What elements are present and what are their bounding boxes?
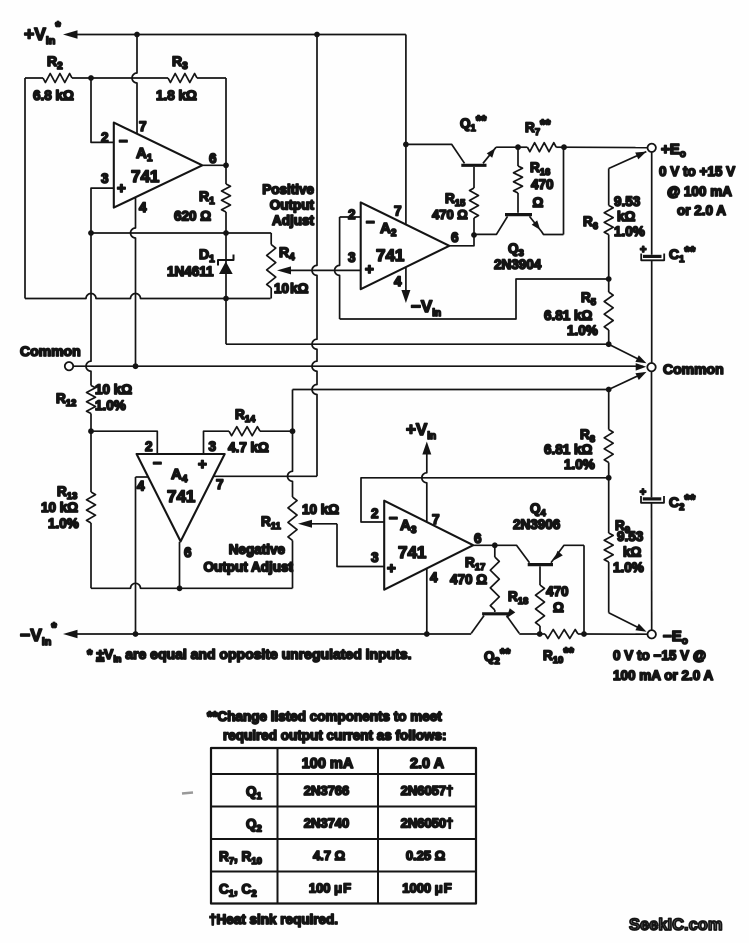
resistor R13 — [87, 431, 96, 588]
terminal +Vin input arrow — [63, 30, 406, 39]
svg-text:SeekIC.com: SeekIC.com — [629, 916, 723, 934]
resistor R14 — [229, 427, 293, 436]
wire A3 output — [473, 544, 495, 546]
label R15 — [445, 191, 466, 209]
svg-text:kΩ: kΩ — [617, 209, 636, 224]
resistor R18 — [536, 566, 545, 634]
pin 7 label A1 — [139, 119, 147, 134]
node A1 output junction — [223, 162, 229, 168]
svg-text:2: 2 — [348, 207, 356, 222]
wiper arrow R4 — [277, 266, 361, 274]
wire R3 right to A1 output — [225, 78, 227, 165]
table row Q2 — [246, 816, 453, 835]
svg-text:Q2**: Q2** — [484, 646, 511, 667]
label -Vin A2 — [411, 297, 441, 319]
svg-text:4.7 Ω: 4.7 Ω — [313, 848, 345, 863]
terminal Common left — [65, 362, 73, 370]
svg-text:741: 741 — [167, 487, 195, 506]
svg-text:R16: R16 — [530, 160, 550, 178]
label D1 — [199, 246, 215, 265]
svg-text:+: + — [365, 261, 374, 278]
svg-text:required output current as fol: required output current as follows: — [223, 728, 447, 743]
label C2** — [669, 491, 696, 513]
value 2N3904 — [494, 257, 542, 272]
wire R11 wiper to A3 pin3 — [337, 524, 384, 567]
pin 7 label A3 — [432, 512, 440, 527]
wire R11 top drop — [288, 431, 293, 497]
svg-text:10 kΩ: 10 kΩ — [41, 500, 78, 515]
node Common/A1 pin4 — [133, 363, 139, 369]
svg-text:Ω: Ω — [553, 600, 564, 615]
label output range positive — [659, 164, 735, 218]
wire A4 output — [179, 542, 181, 589]
op-amp A2 — [361, 202, 450, 289]
node A3 output junction — [492, 542, 498, 548]
wire A4 pin7 supply — [214, 35, 318, 477]
value 470 Ohm R16 — [531, 177, 554, 210]
op-amp A3 — [384, 501, 473, 590]
svg-text:1.0%: 1.0% — [613, 560, 644, 575]
resistor R16 — [514, 147, 523, 213]
svg-text:6.81 kΩ: 6.81 kΩ — [544, 308, 593, 323]
resistor R12 — [87, 386, 96, 432]
pin 6 label A1 — [209, 151, 217, 166]
svg-text:+: + — [387, 560, 396, 577]
svg-text:R6: R6 — [583, 214, 598, 232]
value R6 9.53k — [614, 194, 645, 239]
label C1** — [669, 243, 696, 265]
label Q4 — [530, 501, 547, 519]
table header 100 mA — [302, 756, 354, 772]
pin 4 label A4 — [137, 479, 145, 494]
value R9 9.53k — [613, 529, 644, 575]
value R12 10k — [95, 382, 132, 413]
resistor R1 — [222, 165, 231, 233]
value 1N4611 — [167, 264, 214, 279]
label Q1** — [460, 113, 487, 134]
svg-text:R3: R3 — [172, 53, 188, 72]
svg-text:2.0 A: 2.0 A — [410, 756, 445, 772]
wire A1 pin2 input — [91, 78, 114, 142]
label -Eo — [663, 628, 688, 647]
svg-text:†Heat sink required.: †Heat sink required. — [209, 912, 338, 927]
svg-text:+: + — [198, 456, 207, 473]
value 470 Ohm R15 — [432, 207, 468, 222]
svg-text:A2: A2 — [380, 220, 397, 239]
svg-text:Ω: Ω — [533, 195, 544, 210]
label R12 — [56, 391, 76, 409]
value 6.8 kΩ — [33, 88, 74, 103]
wire to +Eo terminal — [564, 146, 647, 148]
label R2 — [47, 53, 63, 72]
svg-text:−: − — [389, 510, 398, 527]
svg-text:6.81 kΩ: 6.81 kΩ — [544, 442, 593, 457]
pin 7 label A2 — [394, 204, 402, 219]
svg-text:6.8 kΩ: 6.8 kΩ — [33, 88, 74, 103]
svg-text:100 μ F: 100 μ F — [309, 881, 351, 896]
table caption — [207, 709, 447, 743]
svg-text:2: 2 — [101, 130, 109, 145]
svg-text:**Change listed components to: **Change listed components to meet — [207, 709, 442, 724]
transistor Q1 — [406, 144, 518, 165]
terminal -Vin input arrow — [63, 630, 471, 638]
terminal -Eo — [648, 630, 656, 638]
potentiometer R4 — [267, 233, 276, 299]
table row R7 R10 — [219, 848, 445, 867]
svg-text:@ 100 mA: @ 100 mA — [667, 184, 732, 199]
svg-text:3: 3 — [101, 171, 109, 186]
wire A1 pin4 to Common — [131, 197, 136, 366]
svg-text:0 V to −15 V @: 0 V to −15 V @ — [613, 648, 706, 663]
svg-text:6: 6 — [209, 151, 217, 166]
label R7** — [525, 117, 551, 138]
value 470 Ohm R18 — [546, 584, 569, 615]
table footnote — [209, 912, 338, 927]
node R12/R13/A4 pin2 junction — [88, 428, 94, 434]
node D1 bottom junction — [223, 296, 229, 302]
terminal +Eo — [648, 144, 656, 152]
label Q3 — [508, 241, 524, 259]
terminal Common right — [647, 363, 655, 371]
resistor R2 — [25, 74, 91, 83]
zener diode D1 — [218, 233, 234, 299]
svg-text:R2: R2 — [47, 53, 63, 72]
svg-text:3: 3 — [371, 550, 379, 565]
svg-text:R12: R12 — [56, 391, 76, 409]
svg-text:−: − — [153, 455, 162, 472]
svg-text:2N3904: 2N3904 — [494, 257, 542, 272]
label +Eo — [661, 141, 686, 160]
svg-text:2N3906: 2N3906 — [513, 517, 561, 532]
svg-text:7: 7 — [432, 512, 440, 527]
node A1 ref rail left — [88, 230, 94, 236]
node R2/A1 pin2 junction — [88, 75, 94, 81]
node +Vin/A1 pin7 junction — [134, 32, 140, 38]
svg-text:+: + — [117, 180, 126, 197]
svg-text:1N4611: 1N4611 — [167, 264, 214, 279]
value 1.8 kΩ — [156, 88, 197, 103]
svg-text:9.53: 9.53 — [617, 529, 644, 544]
wire A1 output — [202, 164, 226, 166]
svg-text:4: 4 — [137, 479, 145, 494]
node R6/R5 junction — [606, 276, 612, 282]
pin 6 label A2 — [451, 230, 459, 245]
svg-text:D1: D1 — [199, 246, 215, 265]
label R8 — [580, 427, 595, 445]
resistor R6 — [604, 152, 646, 279]
svg-text:R18: R18 — [508, 589, 528, 607]
svg-text:2: 2 — [371, 506, 379, 521]
table header 2.0 A — [410, 756, 445, 772]
value R5 6.81k — [544, 308, 598, 338]
table row Q1 — [246, 783, 453, 802]
svg-text:2N6057†: 2N6057† — [401, 783, 454, 798]
svg-text:741: 741 — [131, 167, 159, 186]
svg-text:10 kΩ: 10 kΩ — [302, 502, 339, 517]
wire A4 output rail — [91, 583, 293, 588]
svg-text:C1**: C1** — [669, 243, 696, 265]
svg-text:C2**: C2** — [669, 491, 696, 513]
stray mark — [182, 793, 193, 794]
svg-text:1.0%: 1.0% — [95, 398, 126, 413]
pin 2 label A2 — [348, 207, 356, 222]
wire A4 pin2 input — [91, 431, 157, 454]
svg-text:Common: Common — [20, 343, 81, 359]
svg-text:1.0%: 1.0% — [567, 323, 598, 338]
wire Q2 emitter to R10 — [519, 633, 539, 635]
label R6 — [583, 214, 598, 232]
label R18 — [508, 589, 528, 607]
pin 2 label A4 — [145, 439, 153, 454]
svg-text:Q1: Q1 — [246, 784, 263, 802]
value 470 Ohm R17 — [450, 572, 487, 587]
svg-text:+: + — [640, 244, 646, 256]
svg-text:R10**: R10** — [543, 645, 575, 666]
svg-text:1.0%: 1.0% — [48, 516, 79, 531]
svg-text:+Vin: +Vin — [406, 420, 436, 442]
pin 3 label A3 — [371, 550, 379, 565]
wire D1 bottom to Common line — [225, 299, 227, 345]
svg-text:Common: Common — [663, 361, 724, 377]
svg-text:100 mA or 2.0 A: 100 mA or 2.0 A — [613, 668, 714, 683]
value R8 6.81k — [544, 442, 595, 472]
label Positive Output Adjust — [262, 182, 314, 228]
svg-text:4.7 kΩ: 4.7 kΩ — [228, 440, 269, 455]
svg-text:6: 6 — [184, 545, 192, 560]
resistor R3 — [168, 74, 226, 83]
svg-text:C1, C2: C1, C2 — [219, 882, 257, 900]
resistor R8 — [604, 387, 613, 478]
node R8/R9/A3 pin2 junction — [606, 475, 612, 481]
svg-text:0.25 Ω: 0.25 Ω — [406, 848, 445, 863]
table row C1 C2 — [219, 881, 452, 900]
transistor Q4 — [495, 545, 584, 564]
svg-text:Q1**: Q1** — [460, 113, 487, 134]
wire A2 output — [449, 235, 474, 246]
svg-text:0 V to +15 V: 0 V to +15 V — [659, 164, 735, 179]
wire A1 pin3 input — [91, 188, 114, 233]
wire A2 pin2 feedback — [335, 217, 609, 319]
wire A2 pin7 supply drop — [403, 35, 409, 226]
svg-text:R4: R4 — [279, 244, 295, 263]
wire A3 pin7 supply — [422, 442, 432, 523]
wire A2 pin4 negative supply — [401, 267, 410, 303]
svg-text:R17: R17 — [465, 555, 485, 573]
wire R14 to Common (line3) — [293, 390, 609, 432]
label R14 — [235, 407, 256, 425]
capacitor C2 — [640, 372, 664, 630]
svg-text:R7**: R7** — [525, 117, 551, 138]
svg-text:3: 3 — [209, 439, 217, 454]
svg-text:6: 6 — [474, 531, 482, 546]
svg-text:R1: R1 — [199, 188, 215, 207]
transistor Q2 — [471, 608, 519, 633]
svg-text:470 Ω: 470 Ω — [450, 572, 487, 587]
svg-text:R7, R10: R7, R10 — [219, 849, 262, 867]
wire zener bottom rail — [25, 294, 271, 299]
svg-text:R11: R11 — [261, 514, 282, 532]
label +Vin A3 — [406, 420, 436, 442]
svg-text:−: − — [119, 133, 128, 150]
node R14 right junction — [290, 428, 296, 434]
svg-text:2N3740: 2N3740 — [304, 816, 350, 831]
pin 4 label A2 — [394, 274, 402, 289]
label R1 — [199, 188, 215, 207]
table grid — [211, 748, 476, 904]
svg-text:6: 6 — [451, 230, 459, 245]
svg-text:4: 4 — [430, 570, 438, 585]
svg-text:9.53: 9.53 — [614, 194, 641, 209]
capacitor C1 — [640, 152, 664, 363]
wire Q4 emitter drop — [583, 545, 585, 634]
svg-text:−Vin: −Vin — [411, 297, 441, 319]
svg-text:470: 470 — [531, 177, 554, 192]
wire R9 to -Eo arrow — [609, 613, 647, 632]
svg-text:1.0%: 1.0% — [614, 224, 645, 239]
svg-text:7: 7 — [139, 119, 147, 134]
svg-text:+: + — [640, 487, 646, 499]
op-amp A1 — [114, 123, 203, 208]
wire R2 left rail — [24, 78, 26, 299]
label Negative Output Adjust — [204, 542, 294, 575]
resistor R17 — [490, 545, 499, 612]
node -Vin/A4 pin4 — [133, 631, 139, 637]
wire R5 to Common arrow — [609, 344, 647, 363]
svg-text:3: 3 — [348, 250, 356, 265]
svg-text:10 kΩ: 10 kΩ — [95, 382, 132, 397]
svg-text:1000 μ F: 1000 μ F — [402, 881, 452, 896]
wiper arrow R11 — [298, 520, 337, 528]
node +Vin/A4 pin7 junction — [314, 32, 320, 38]
wire Q3 emitter to output rail — [563, 147, 565, 234]
svg-text:R5: R5 — [581, 290, 597, 308]
node Q1 emitter junction — [515, 144, 521, 150]
svg-text:7: 7 — [216, 477, 224, 492]
label R17 — [465, 555, 485, 573]
resistor R7 — [518, 143, 564, 152]
svg-text:Output Adjust: Output Adjust — [204, 560, 294, 575]
label R13 — [57, 484, 77, 502]
svg-text:741: 741 — [398, 543, 426, 562]
svg-text:Output: Output — [270, 198, 315, 213]
resistor R5 — [604, 279, 613, 344]
svg-text:1.8 kΩ: 1.8 kΩ — [156, 88, 197, 103]
svg-text:2N3766: 2N3766 — [304, 783, 350, 798]
label R11 — [261, 514, 282, 532]
value 2N3906 — [513, 517, 561, 532]
svg-text:470: 470 — [546, 584, 569, 599]
pin 3 label A1 — [101, 171, 109, 186]
label -Vin* — [20, 619, 57, 648]
wire reference to Common (line1) — [226, 343, 609, 345]
wire Common line — [73, 363, 646, 371]
label output range negative — [613, 648, 714, 683]
label Q2** — [484, 646, 511, 667]
pin 6 label A3 — [474, 531, 482, 546]
label R16 — [530, 160, 550, 178]
wire R8 to Common arrow — [609, 372, 647, 390]
value R13 10k — [41, 500, 79, 531]
wire R2-R3 segment — [91, 77, 168, 79]
svg-text:R14: R14 — [235, 407, 256, 425]
svg-text:100 mA: 100 mA — [302, 756, 354, 772]
svg-text:kΩ: kΩ — [623, 545, 642, 560]
svg-text:A1: A1 — [136, 145, 153, 164]
label R10** — [543, 645, 575, 666]
value 620 Ohm — [174, 209, 211, 224]
wire zener reference rail — [91, 232, 271, 234]
note unregulated inputs — [87, 646, 412, 664]
svg-text:4: 4 — [139, 200, 147, 215]
svg-text:470 Ω: 470 Ω — [432, 207, 468, 222]
pin 4 label A1 — [139, 200, 147, 215]
label R5 — [581, 290, 597, 308]
node R1/D1 junction — [223, 230, 229, 236]
potentiometer R11 — [288, 497, 297, 588]
svg-text:A4: A4 — [171, 466, 188, 485]
node -Vin/A3 pin4 — [424, 631, 430, 637]
svg-text:+Eo: +Eo — [661, 141, 686, 160]
resistor R9 — [604, 478, 613, 613]
svg-text:10 kΩ: 10 kΩ — [274, 281, 309, 296]
wire to -Eo terminal — [584, 633, 647, 635]
wire A4 pin4 negative supply — [136, 477, 149, 634]
wire A3 pin4 negative supply — [426, 569, 428, 634]
pin 6 label A4 — [184, 545, 192, 560]
pin 4 label A3 — [430, 570, 438, 585]
svg-text:620 Ω: 620 Ω — [174, 209, 211, 224]
svg-text:or 2.0 A: or 2.0 A — [677, 203, 726, 218]
label R3 — [172, 53, 188, 72]
svg-text:Q2: Q2 — [246, 817, 262, 835]
svg-text:−: − — [366, 214, 375, 231]
svg-text:Adjust: Adjust — [272, 213, 315, 228]
svg-text:4: 4 — [394, 274, 402, 289]
svg-text:2: 2 — [145, 439, 153, 454]
wire R12 top drop — [86, 233, 91, 386]
wire A1 pin7 supply drop — [132, 35, 137, 135]
svg-text:1.0%: 1.0% — [564, 457, 595, 472]
svg-text:* ±Vin are equal and opposite: * ±Vin are equal and opposite unregulate… — [87, 646, 412, 664]
node R7 right junction — [561, 144, 567, 150]
svg-text:+Vin*: +Vin* — [24, 18, 61, 47]
watermark SeekIC.com — [629, 916, 723, 934]
pin 3 label A4 — [209, 439, 217, 454]
transistor Q3 — [474, 215, 564, 235]
resistor R10 — [540, 630, 584, 639]
label R4 — [279, 244, 295, 263]
pin 7 label A4 — [216, 477, 224, 492]
value 10 kΩ R4 — [274, 281, 309, 296]
value 10 kΩ R11 — [302, 502, 339, 517]
node A2 output junction — [471, 232, 477, 238]
node A4 output junction — [177, 585, 183, 591]
svg-text:A3: A3 — [400, 517, 417, 536]
wire A3 pin2 input — [361, 478, 609, 522]
svg-text:741: 741 — [376, 246, 404, 265]
node R5 bottom junction — [606, 341, 612, 347]
op-amp A4 — [137, 454, 225, 541]
pin 2 label A3 — [371, 506, 379, 521]
value 4.7 kΩ — [228, 440, 269, 455]
node R10/Q4 emitter junction — [581, 631, 587, 637]
label Common left — [20, 343, 81, 359]
svg-text:7: 7 — [394, 204, 402, 219]
svg-text:Negative: Negative — [229, 542, 286, 557]
svg-text:−Eo: −Eo — [663, 628, 688, 647]
label R9 — [615, 518, 630, 536]
pin 2 label A1 — [101, 130, 109, 145]
